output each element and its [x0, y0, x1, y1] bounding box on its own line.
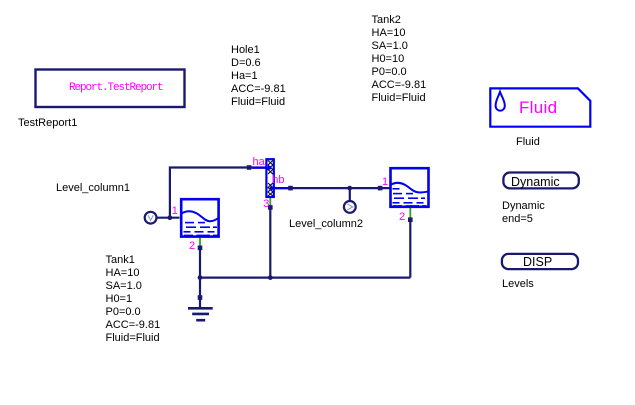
label Dynamic inside experiment box	[511, 176, 560, 189]
junction node at Tank1 bottom on bus	[198, 275, 203, 280]
instance label Levels	[502, 278, 534, 291]
wire from junction down to Level_column2	[349, 188, 351, 200]
wire from Level_column1 to Tank1 pin 1	[157, 217, 180, 219]
wire from Hole1 port hb to Tank2 pin 1	[275, 187, 391, 189]
value label block Tank2	[372, 14, 427, 105]
label DISP inside display box	[523, 256, 552, 269]
ground symbol	[188, 308, 213, 320]
wire from Hole1 port 3 down to bottom bus	[269, 209, 271, 278]
pin label 3 of Hole1	[263, 199, 269, 210]
experiment component Dynamic box	[503, 173, 578, 189]
instance label Fluid	[516, 136, 540, 149]
droplet icon inside Fluid	[496, 92, 505, 111]
display component DISP box	[502, 254, 578, 269]
fluid component Fluid box with cut corner	[490, 88, 590, 126]
terminal square pin at Hole1 port 3	[268, 205, 273, 210]
terminal square pin on wire at Hole1 port ha	[247, 165, 252, 170]
instance label Level_column2	[289, 218, 363, 231]
value label Fluid inside fluid box	[519, 98, 557, 117]
terminal square pin at Tank1 pin 2	[198, 246, 203, 251]
wire from bus down to ground	[199, 278, 201, 308]
instance label Dynamic with end=5	[502, 200, 545, 226]
blue pin stub hb of Hole1	[270, 186, 289, 190]
hole component Hole1 icon	[266, 159, 273, 197]
sensor component Level_column1 icon	[145, 212, 157, 224]
green pin stub of Hole1 port 3	[269, 197, 271, 206]
pin label 2 of Tank1	[189, 241, 195, 252]
tank component Tank2 icon	[390, 168, 429, 207]
blue pin stub ha of Hole1	[252, 166, 271, 170]
bottom bus wire	[200, 277, 410, 279]
terminal square pin above ground	[198, 295, 203, 300]
green pin stub of Tank2 pin 2	[409, 208, 411, 219]
value label Report.TestReport inside report box	[69, 83, 161, 94]
pin label 1 of Tank2	[382, 177, 388, 188]
terminal square pin on wire at Hole1 port hb	[288, 186, 293, 191]
green pin stub of Tank1 pin 2	[199, 238, 201, 247]
junction node at Tank1 pin 1	[168, 215, 173, 220]
instance label Level_column1	[56, 182, 130, 195]
terminal square pin at Tank2 pin 2	[408, 217, 413, 222]
tank component Tank1 icon	[181, 199, 220, 236]
pin label 2 of Tank2	[399, 212, 405, 223]
wire from Tank1 pin 1 up to Hole1 port ha	[170, 168, 266, 218]
pin label 1 of Tank1	[172, 206, 178, 217]
sensor component Level_column2 icon	[344, 201, 356, 213]
instance label TestReport1	[18, 117, 77, 130]
report component TestReport1 box	[36, 70, 185, 108]
junction node above Level_column2	[347, 186, 352, 191]
pin label hb of Hole1	[272, 175, 284, 186]
value label block Hole1	[231, 44, 286, 109]
terminal square pin at Tank2 pin 1	[378, 186, 383, 191]
wire from Tank1 pin 2 down to bus	[199, 249, 201, 278]
wire from Tank2 pin 2 down and left to bus	[409, 222, 411, 278]
junction node at Hole1 column on bus	[268, 275, 273, 280]
value label block Tank1	[106, 254, 161, 345]
pin label ha of Hole1	[253, 157, 265, 168]
